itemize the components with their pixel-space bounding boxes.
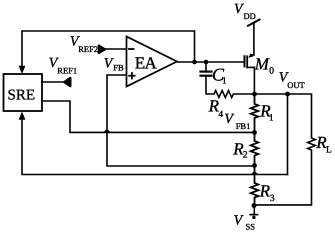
svg-text:SS: SS bbox=[246, 222, 256, 232]
svg-text:EA: EA bbox=[135, 53, 158, 72]
svg-text:2: 2 bbox=[243, 150, 248, 160]
svg-text:L: L bbox=[326, 145, 332, 155]
svg-text:OUT: OUT bbox=[287, 80, 305, 90]
svg-text:V: V bbox=[234, 214, 244, 229]
svg-text:SRE: SRE bbox=[8, 88, 36, 104]
svg-text:M: M bbox=[254, 54, 270, 73]
svg-text:FB1: FB1 bbox=[236, 121, 251, 131]
svg-text:DD: DD bbox=[244, 11, 256, 21]
svg-text:V: V bbox=[234, 2, 244, 17]
svg-text:V: V bbox=[224, 112, 234, 127]
svg-text:REF1: REF1 bbox=[57, 66, 77, 76]
svg-text:3: 3 bbox=[270, 194, 275, 204]
svg-text:0: 0 bbox=[269, 66, 274, 76]
svg-text:4: 4 bbox=[218, 110, 223, 120]
svg-text:FB: FB bbox=[113, 63, 124, 73]
svg-text:R: R bbox=[259, 182, 271, 201]
svg-text:REF2: REF2 bbox=[78, 44, 98, 54]
svg-text:1: 1 bbox=[222, 77, 227, 87]
svg-text:1: 1 bbox=[269, 113, 274, 123]
